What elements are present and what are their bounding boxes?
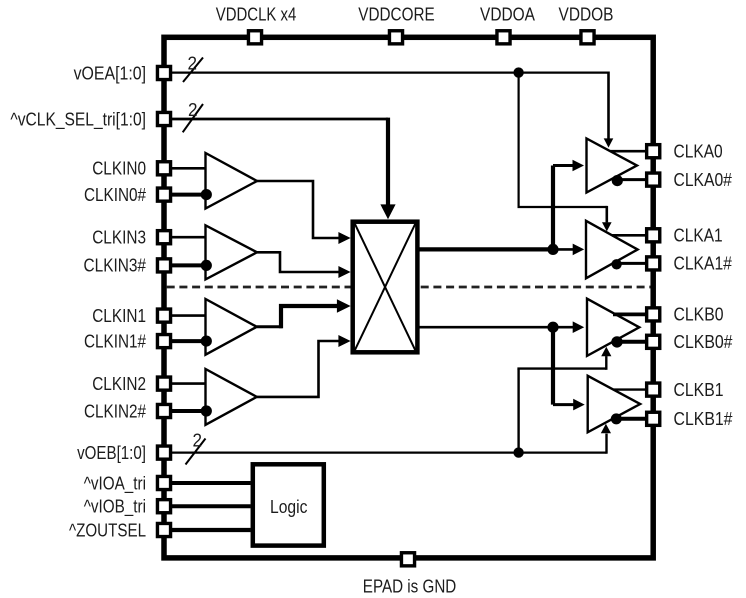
pin VDDCLK xyxy=(248,31,261,44)
chip outline xyxy=(164,37,653,558)
wire CLKB1 out xyxy=(613,388,646,390)
node CLKIN0# dot xyxy=(201,189,212,200)
pin CLKIN3 xyxy=(157,231,170,244)
pin vOEB xyxy=(157,446,170,459)
node CLKB1# bubble xyxy=(611,413,622,424)
wire CLKIN1# input xyxy=(171,339,203,343)
wire CLKIN1 input xyxy=(171,314,205,317)
pin vOEA xyxy=(157,66,170,79)
buffer CLKIN0 xyxy=(206,153,258,209)
node CLKA0# bubble xyxy=(612,175,623,186)
svg-text:CLKIN2: CLKIN2 xyxy=(92,374,146,394)
svg-text:^vIOB_tri: ^vIOB_tri xyxy=(84,497,146,518)
pin CLKA1# xyxy=(647,257,660,270)
svg-text:Logic: Logic xyxy=(270,497,307,517)
svg-text:CLKA0: CLKA0 xyxy=(674,142,723,162)
pin vIOA_tri xyxy=(157,476,170,489)
wire CLKIN2# input xyxy=(171,409,203,413)
wire vOEB to CLKB0 enable xyxy=(605,356,607,370)
svg-text:CLKA1#: CLKA1# xyxy=(674,254,732,274)
wire CLKA0# out xyxy=(621,178,645,181)
svg-text:2: 2 xyxy=(193,430,203,450)
wire vOEA branch across xyxy=(518,206,607,208)
svg-text:CLKIN0: CLKIN0 xyxy=(92,159,146,179)
pin VDDCORE xyxy=(389,31,402,44)
svg-text:EPAD is GND: EPAD is GND xyxy=(363,577,457,597)
svg-text:2: 2 xyxy=(188,54,198,74)
node CLKIN1# dot xyxy=(201,336,212,347)
wire vIOB_tri to logic xyxy=(171,504,251,508)
logic block xyxy=(253,464,324,545)
pin CLKA1 xyxy=(647,229,660,242)
wire into CLKA0 buffer xyxy=(553,164,573,167)
pin CLKIN0# xyxy=(157,188,170,201)
pin CLKA0 xyxy=(647,145,660,158)
pin CLKB0# xyxy=(647,335,660,348)
wire crossbar out A xyxy=(417,247,553,251)
wire crossbar out B xyxy=(417,326,553,329)
svg-text:CLKIN1#: CLKIN1# xyxy=(84,331,146,351)
wire vOEA to CLKA0 enable xyxy=(607,72,610,139)
pin vCLK_SEL xyxy=(157,112,170,125)
svg-text:CLKB0: CLKB0 xyxy=(674,305,724,325)
buffer CLKIN2 xyxy=(206,369,257,425)
svg-text:2: 2 xyxy=(188,100,198,120)
svg-text:VDDOB: VDDOB xyxy=(559,5,614,25)
pin CLKB1 xyxy=(647,383,660,396)
wire CLKA0 out xyxy=(610,150,645,153)
wire CLKB1# out xyxy=(621,417,646,421)
wire CLKA1 out xyxy=(612,234,645,237)
wire CLKB0# out xyxy=(622,340,645,344)
wire buffer3 out to crossbar in2 xyxy=(257,252,340,272)
wire into CLKB1 buffer xyxy=(553,403,574,406)
svg-text:CLKA0#: CLKA0# xyxy=(674,170,732,190)
wire out A up branch xyxy=(551,166,555,250)
wire CLKB0 out xyxy=(613,312,645,316)
svg-text:vOEA[1:0]: vOEA[1:0] xyxy=(74,63,146,83)
wire vIOA_tri to logic xyxy=(171,481,251,485)
pin ZOUTSEL xyxy=(157,523,170,536)
pin vIOB_tri xyxy=(157,500,170,513)
pin CLKIN1# xyxy=(157,335,170,348)
wire CLKIN3# input xyxy=(171,263,203,267)
wire buffer1 out thick to crossbar in3 xyxy=(281,306,337,328)
svg-text:VDDCORE: VDDCORE xyxy=(358,5,434,25)
buffer CLKB1 xyxy=(588,376,641,433)
pin CLKA0# xyxy=(647,173,660,186)
svg-text:vOEB[1:0]: vOEB[1:0] xyxy=(77,443,146,463)
wire vOEA to CLKA1 enable xyxy=(605,206,608,223)
wire vOEB branch across xyxy=(517,367,606,369)
wire into CLKB0 buffer xyxy=(553,326,574,329)
wire vOEB horizontal xyxy=(171,452,607,454)
pin VDDOA xyxy=(497,31,510,44)
wire into CLKA1 buffer xyxy=(553,248,574,251)
buffer CLKA1 xyxy=(586,221,638,278)
svg-text:^vCLK_SEL_tri[1:0]: ^vCLK_SEL_tri[1:0] xyxy=(10,109,146,130)
wire vOEA[1:0] horizontal xyxy=(171,71,609,73)
wire CLKIN3 input xyxy=(171,236,205,239)
svg-text:CLKB1#: CLKB1# xyxy=(674,409,733,429)
node CLKIN3# dot xyxy=(201,260,212,271)
svg-text:CLKA1: CLKA1 xyxy=(674,226,723,246)
svg-text:CLKIN0#: CLKIN0# xyxy=(84,185,146,205)
node CLKIN2# dot xyxy=(201,405,212,416)
wire vCLK_SEL down to crossbar xyxy=(386,118,390,205)
svg-text:CLKIN3: CLKIN3 xyxy=(92,228,146,248)
svg-text:^vIOA_tri: ^vIOA_tri xyxy=(84,473,146,494)
wire vOEA branch down xyxy=(517,73,519,207)
svg-text:CLKB0#: CLKB0# xyxy=(674,332,733,352)
wire CLKIN0 input xyxy=(171,167,205,170)
svg-text:CLKIN2#: CLKIN2# xyxy=(84,401,146,421)
svg-text:VDDOA: VDDOA xyxy=(480,5,535,25)
wire CLKA1# out xyxy=(621,262,645,265)
node vOEB junction xyxy=(513,447,523,457)
node out B junction xyxy=(547,322,558,333)
pin CLKB1# xyxy=(647,412,660,425)
node CLKB0# bubble xyxy=(611,336,622,347)
svg-text:CLKIN3#: CLKIN3# xyxy=(84,256,147,276)
dashed plane-split line xyxy=(167,286,651,289)
svg-text:CLKB1: CLKB1 xyxy=(674,380,724,400)
buffer CLKA0 xyxy=(587,139,638,193)
wire buffer0 out to crossbar in1 xyxy=(257,181,340,238)
wire ZOUTSEL to logic xyxy=(171,528,251,532)
pin CLKB0 xyxy=(647,308,660,321)
pin CLKIN2# xyxy=(157,404,170,417)
wire vCLK_SEL horizontal xyxy=(171,118,388,121)
pin CLKIN0 xyxy=(157,162,170,175)
svg-text:^ZOUTSEL: ^ZOUTSEL xyxy=(69,520,146,540)
node out A junction xyxy=(547,244,558,255)
svg-text:VDDCLK x4: VDDCLK x4 xyxy=(216,5,297,25)
bus slash vOEA xyxy=(183,58,203,83)
svg-text:CLKIN1: CLKIN1 xyxy=(92,306,146,326)
wire CLKIN0# input xyxy=(171,193,203,197)
bus slash vOEB xyxy=(186,439,206,465)
node CLKA1# bubble xyxy=(611,259,621,269)
buffer CLKIN1 xyxy=(206,299,257,355)
crossbar switch matrix xyxy=(353,222,418,353)
buffer CLKIN3 xyxy=(206,225,258,279)
wire vOEB to CLKB1 enable xyxy=(605,434,607,454)
wire CLKIN2 input xyxy=(171,382,205,385)
wire buffer2 out to crossbar in4 xyxy=(257,341,340,397)
pin VDDOB xyxy=(581,31,594,44)
wire vOEB branch up xyxy=(517,369,519,453)
wire buffer1 out segment xyxy=(257,325,283,328)
pin EPAD xyxy=(401,553,414,566)
pin CLKIN3# xyxy=(157,259,170,272)
wire out B down branch xyxy=(551,327,555,404)
pin CLKIN2 xyxy=(157,377,170,390)
pin CLKIN1 xyxy=(157,309,170,322)
bus slash vCLK_SEL xyxy=(183,104,203,132)
buffer CLKB0 xyxy=(587,299,639,356)
node vOEA junction xyxy=(513,67,523,77)
